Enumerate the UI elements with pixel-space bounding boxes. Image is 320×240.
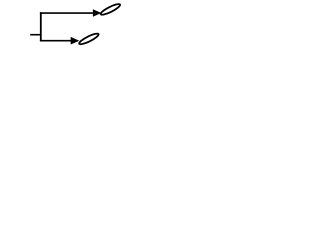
wire: input stub: [30, 34, 41, 36]
wire: bottom horizontal: [40, 40, 71, 42]
wire: vertical branch: [40, 12, 42, 41]
arrowhead top: [93, 9, 101, 17]
connector loop top (off-page probe): [100, 2, 122, 16]
wire: top horizontal: [40, 12, 94, 14]
connector loop bottom (off-page probe): [78, 32, 100, 46]
arrowhead bottom: [71, 37, 80, 45]
